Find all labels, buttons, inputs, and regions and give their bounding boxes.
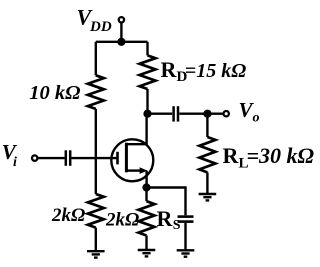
wire RS bottom — [145, 236, 147, 251]
capacitor input coupling — [66, 150, 70, 166]
wire left chain top — [95, 42, 97, 76]
wire RS top — [145, 188, 147, 202]
terminal Vi — [32, 155, 37, 160]
node drain junction — [143, 110, 151, 118]
label Vi — [2, 140, 18, 170]
capacitor output coupling — [174, 106, 178, 121]
label RD=15 kOhm — [161, 57, 247, 85]
svg-text:R: R — [161, 57, 178, 82]
terminal Vo — [224, 111, 229, 116]
svg-text:R: R — [157, 206, 174, 231]
wire drain to output cap — [148, 112, 173, 114]
label VDD — [77, 4, 112, 35]
svg-text:2kΩ: 2kΩ — [105, 209, 139, 230]
wire RL bottom — [206, 172, 208, 194]
svg-text:=15 kΩ: =15 kΩ — [185, 60, 246, 82]
ground (RS) — [138, 250, 156, 256]
wire input cap to gate — [72, 157, 117, 159]
svg-text:DD: DD — [89, 19, 112, 35]
wire left chain middle — [95, 109, 97, 194]
wire output cap to Vo — [179, 112, 223, 114]
svg-text:o: o — [253, 111, 260, 126]
wire VDD stem — [120, 23, 122, 42]
svg-text:2kΩ: 2kΩ — [51, 205, 85, 226]
wire Vi to input cap — [38, 157, 65, 159]
resistor RL — [199, 137, 215, 172]
label Vo — [239, 98, 260, 126]
wire top rail — [96, 41, 148, 43]
node VDD rail junction — [117, 38, 125, 46]
resistor 2k (bias lower) — [88, 194, 104, 228]
terminal VDD — [119, 17, 124, 22]
label RS — [157, 206, 181, 233]
ground (bypass cap) — [177, 250, 195, 256]
svg-text:R: R — [223, 143, 240, 168]
ground (RL) — [199, 194, 217, 200]
label RL=30 kOhm — [223, 143, 315, 172]
ground (bias chain) — [87, 251, 105, 257]
svg-text:i: i — [13, 155, 17, 170]
node source junction — [142, 183, 150, 191]
transistor M1 (NMOS) — [111, 114, 153, 188]
resistor RS — [139, 201, 155, 235]
wire bypass cap to ground — [184, 223, 186, 250]
resistor 10k (bias upper) — [88, 75, 104, 109]
resistor RD — [140, 55, 156, 89]
wire left chain bottom — [95, 228, 97, 252]
wire RL top — [206, 114, 208, 137]
node output junction — [203, 110, 211, 118]
wire RD bottom to drain node — [146, 89, 148, 114]
svg-text:=30 kΩ: =30 kΩ — [247, 143, 315, 168]
svg-text:S: S — [173, 218, 181, 233]
capacitor source bypass — [178, 217, 194, 222]
wire RD top — [146, 42, 148, 56]
svg-text:10 kΩ: 10 kΩ — [29, 82, 80, 104]
wire source to bypass cap branch — [147, 188, 186, 216]
